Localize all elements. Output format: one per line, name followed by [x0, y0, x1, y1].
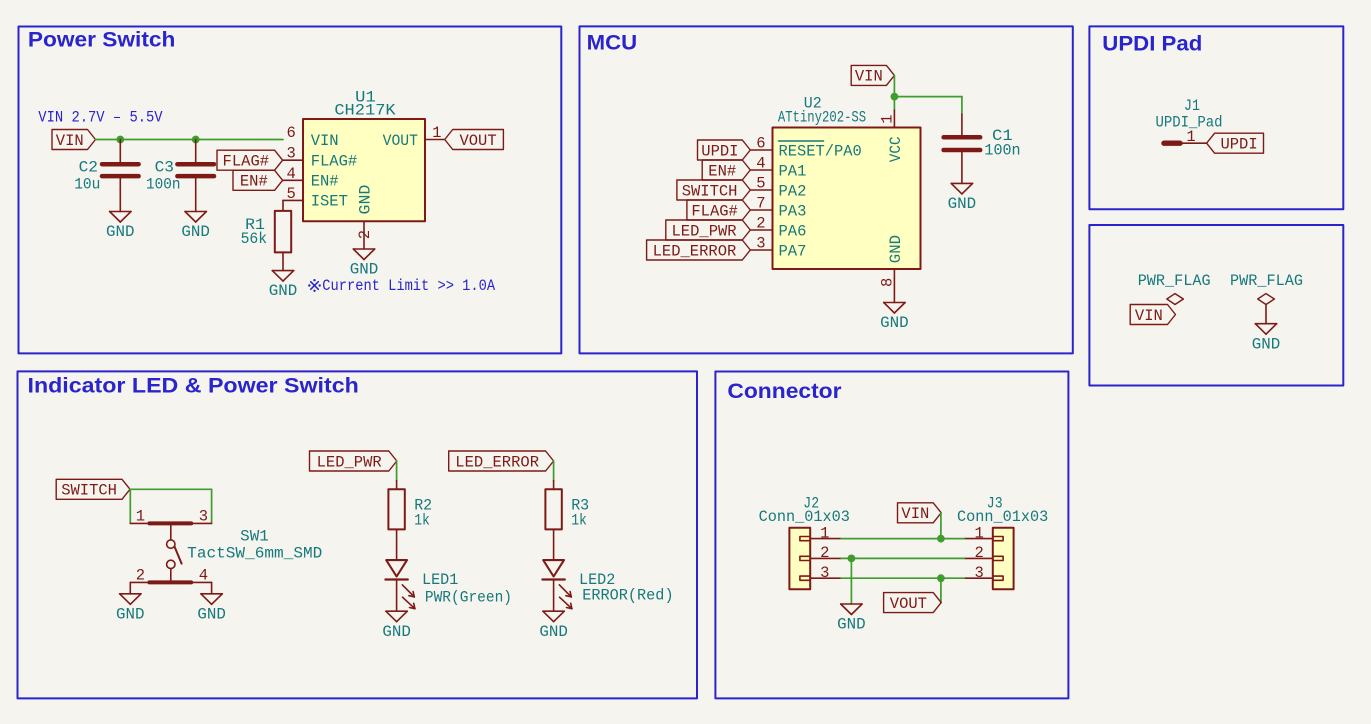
pin J3 2 — [964, 557, 993, 559]
svg-text:GND: GND — [837, 616, 866, 634]
svg-text:GND: GND — [539, 623, 568, 641]
wire vout down conn — [940, 578, 942, 602]
ground sw4 — [197, 594, 226, 624]
global label LED_PWR mcu — [666, 220, 751, 240]
junction row1 — [937, 535, 945, 543]
svg-text:PWR(Green): PWR(Green) — [425, 589, 512, 607]
connector J2 contact 1 — [800, 537, 810, 541]
svg-text:100n: 100n — [984, 141, 1020, 159]
global label EN# — [233, 170, 283, 190]
junction at C3 — [192, 136, 200, 144]
wire pin UPDI — [750, 149, 772, 151]
svg-text:SWITCH: SWITCH — [682, 182, 738, 200]
global label VOUT — [445, 130, 504, 150]
svg-text:8: 8 — [878, 278, 896, 287]
svg-text:PA3: PA3 — [779, 202, 807, 220]
sheet box MCU — [580, 26, 1073, 353]
note asterisk — [308, 279, 321, 292]
svg-text:1: 1 — [820, 524, 829, 542]
wire to C1 — [894, 96, 962, 98]
svg-text:UPDI: UPDI — [701, 142, 738, 160]
resistor R2 — [388, 489, 404, 529]
svg-text:GND: GND — [880, 314, 909, 332]
svg-text:GND: GND — [106, 223, 135, 241]
connector J3 contact 2 — [993, 556, 1003, 560]
svg-text:TactSW_6mm_SMD: TactSW_6mm_SMD — [187, 545, 322, 563]
svg-text:GND: GND — [1252, 335, 1281, 353]
svg-text:2: 2 — [136, 567, 145, 585]
svg-text:VIN: VIN — [56, 132, 84, 150]
junction row3 — [937, 574, 945, 582]
svg-text:CH217K: CH217K — [334, 102, 396, 120]
pin VCC stub — [893, 110, 895, 128]
resistor R3 — [545, 489, 561, 529]
svg-text:1: 1 — [136, 508, 145, 526]
svg-text:C2: C2 — [79, 159, 98, 177]
global label VIN — [52, 130, 96, 150]
global label LED_PWR led — [310, 451, 397, 471]
svg-text:1: 1 — [879, 114, 897, 123]
svg-text:LED_ERROR: LED_ERROR — [455, 453, 539, 471]
wire R1 to GND — [282, 252, 284, 270]
connector J2 contact 2 — [800, 556, 810, 560]
overline RESET — [779, 140, 824, 142]
wire to R2 — [396, 481, 398, 490]
wire flag gnd — [1265, 305, 1267, 324]
svg-text:GND: GND — [350, 261, 379, 279]
svg-text:1k: 1k — [571, 512, 587, 530]
wire pin LED_PWR — [750, 229, 772, 231]
svg-text:Conn_01x03: Conn_01x03 — [759, 508, 850, 526]
ground below R1 — [269, 271, 298, 301]
wire sw pin2 gnd — [129, 582, 131, 593]
svg-text:VIN: VIN — [1135, 307, 1163, 325]
junction VCC — [891, 93, 899, 101]
resistor R1 — [275, 211, 291, 253]
svg-text:Indicator LED & Power Switch: Indicator LED & Power Switch — [28, 375, 359, 398]
svg-text:VOUT: VOUT — [890, 595, 927, 613]
svg-text:LED_PWR: LED_PWR — [672, 222, 737, 240]
connector J3 contact 3 — [993, 576, 1003, 580]
junction row2 — [848, 555, 856, 563]
ground below C2 — [106, 212, 135, 242]
svg-text:FLAG#: FLAG# — [223, 153, 270, 171]
svg-text:GND: GND — [197, 605, 226, 623]
wire lederr down — [553, 461, 555, 481]
svg-text:Conn_01x03: Conn_01x03 — [957, 508, 1048, 526]
capacitor C3 — [177, 140, 214, 212]
sheet box Power Switch — [19, 27, 562, 354]
wire pin LED_ERROR — [750, 249, 772, 251]
sheet box flags — [1089, 225, 1343, 386]
connector J3 body — [993, 528, 1014, 590]
svg-text:EN#: EN# — [311, 173, 339, 191]
capacitor C2 — [102, 140, 139, 212]
svg-text:3: 3 — [286, 145, 295, 163]
flag F2 diamond — [1258, 294, 1275, 305]
pin J3 1 — [964, 538, 993, 540]
svg-text:GND: GND — [887, 235, 905, 263]
svg-text:VOUT: VOUT — [459, 132, 496, 150]
svg-text:RESET/PA0: RESET/PA0 — [779, 142, 862, 160]
pin J2 2 — [810, 557, 841, 559]
svg-text:100n: 100n — [146, 176, 181, 194]
svg-text:EN#: EN# — [708, 162, 736, 180]
wire ledpwr down — [396, 461, 398, 481]
global label VOUT conn — [884, 593, 942, 613]
svg-text:GND: GND — [181, 223, 210, 241]
wire R3 to LED2 — [553, 529, 555, 559]
wire row3 — [841, 577, 964, 579]
sheet box Indicator — [18, 371, 698, 698]
connector J2 contact 3 — [800, 576, 810, 580]
sheet box UPDI Pad — [1089, 26, 1343, 209]
svg-text:1k: 1k — [414, 512, 430, 530]
svg-text:GND: GND — [948, 195, 977, 213]
ground below C3 — [181, 212, 210, 242]
svg-text:4: 4 — [756, 155, 765, 173]
wire R2 to LED1 — [396, 529, 398, 559]
svg-text:SWITCH: SWITCH — [61, 482, 117, 500]
wire pin FLAG# — [750, 209, 772, 211]
svg-text:3: 3 — [199, 508, 208, 526]
wire vin down conn — [940, 513, 942, 539]
svg-text:3: 3 — [820, 564, 829, 582]
svg-text:6: 6 — [286, 124, 295, 142]
ground conn — [837, 604, 866, 634]
capacitor C1 — [944, 114, 981, 183]
svg-text:VIN: VIN — [311, 132, 339, 150]
svg-text:Current Limit >> 1.0A: Current Limit >> 1.0A — [322, 277, 495, 295]
ground below U1 — [350, 249, 379, 279]
svg-text:GND: GND — [116, 605, 145, 623]
wire EN# pin — [283, 179, 303, 181]
svg-text:2: 2 — [974, 544, 983, 562]
svg-text:GND: GND — [269, 282, 298, 300]
svg-text:PA1: PA1 — [779, 162, 807, 180]
global label SWITCH mcu — [677, 180, 750, 200]
wire LED2 gnd — [553, 579, 555, 611]
svg-text:PWR_FLAG: PWR_FLAG — [1138, 272, 1211, 290]
wire FLAG# pin — [283, 159, 303, 161]
global label EN# mcu — [702, 160, 750, 180]
op-amp U1 body — [303, 119, 425, 221]
flag F1 diamond — [1167, 294, 1184, 305]
wire J1 pin — [1180, 142, 1207, 144]
svg-text:2: 2 — [820, 544, 829, 562]
svg-text:FLAG#: FLAG# — [691, 202, 738, 220]
svg-text:LED_PWR: LED_PWR — [317, 453, 382, 471]
switch SW1 — [130, 523, 211, 582]
svg-text:SW1: SW1 — [240, 528, 269, 546]
sheet box Connector — [715, 372, 1068, 699]
global label FLAG# — [217, 150, 283, 170]
ground led1 — [382, 611, 411, 641]
svg-text:LED1: LED1 — [422, 571, 458, 589]
global label LED_ERROR led — [449, 451, 554, 471]
svg-text:ATtiny202-SS: ATtiny202-SS — [778, 108, 866, 126]
wire gnd conn — [850, 558, 852, 604]
ground led2 — [539, 611, 568, 641]
global label LED_ERROR mcu — [647, 240, 751, 260]
global label UPDI pad — [1207, 133, 1264, 153]
svg-text:5: 5 — [286, 185, 295, 203]
svg-text:PA7: PA7 — [779, 242, 807, 260]
LED LED2 — [542, 560, 572, 609]
svg-text:3: 3 — [756, 235, 765, 253]
wire VIN to U1 — [96, 139, 284, 141]
pin 5 wire to R1 — [283, 199, 303, 201]
svg-text:C3: C3 — [155, 159, 174, 177]
global label VIN mcu — [851, 65, 894, 85]
svg-text:ISET: ISET — [311, 193, 348, 211]
connector J1 pad — [1164, 140, 1180, 145]
wire switch top — [130, 488, 212, 490]
svg-text:VIN: VIN — [855, 68, 883, 86]
svg-text:PA6: PA6 — [779, 222, 807, 240]
svg-text:3: 3 — [974, 564, 983, 582]
LED LED1 — [385, 560, 415, 609]
global label UPDI mcu — [698, 140, 751, 160]
junction at C2 — [116, 136, 124, 144]
pin J2 1 — [810, 538, 841, 540]
global label VIN flag — [1130, 305, 1175, 325]
svg-text:10u: 10u — [74, 176, 100, 194]
svg-text:VCC: VCC — [887, 136, 905, 162]
wire pin EN# — [750, 169, 772, 171]
svg-text:MCU: MCU — [587, 32, 638, 55]
svg-text:56k: 56k — [241, 230, 268, 248]
svg-text:PA2: PA2 — [779, 182, 807, 200]
wire LED1 gnd — [396, 579, 398, 611]
connector J3 contact 1 — [993, 537, 1003, 541]
svg-text:2: 2 — [756, 215, 765, 233]
ground below U2 — [880, 303, 909, 333]
wire VIN down — [893, 75, 895, 110]
ground below C1 — [948, 183, 977, 213]
svg-text:LED_ERROR: LED_ERROR — [653, 242, 737, 260]
wire VOUT pin — [425, 139, 445, 141]
svg-text:1: 1 — [974, 524, 983, 542]
svg-text:VIN 2.7V – 5.5V: VIN 2.7V – 5.5V — [38, 108, 163, 126]
svg-text:GND: GND — [382, 623, 411, 641]
svg-text:1: 1 — [1186, 128, 1195, 146]
svg-text:6: 6 — [756, 135, 765, 153]
svg-text:VIN: VIN — [901, 505, 929, 523]
ground sw2 — [116, 594, 145, 624]
svg-text:UPDI: UPDI — [1220, 136, 1257, 154]
ground flag — [1252, 324, 1281, 354]
svg-text:FLAG#: FLAG# — [311, 153, 358, 171]
wire to R3 — [553, 481, 555, 490]
wire pin SWITCH — [750, 189, 772, 191]
svg-text:7: 7 — [756, 195, 765, 213]
pin J2 3 — [810, 577, 841, 579]
global label VIN conn — [898, 503, 942, 523]
svg-text:Connector: Connector — [727, 380, 841, 403]
svg-text:4: 4 — [199, 567, 208, 585]
svg-text:VOUT: VOUT — [383, 132, 418, 150]
wire U2 pin8 — [893, 269, 895, 303]
svg-text:GND: GND — [356, 185, 374, 215]
pin J3 3 — [964, 577, 993, 579]
connector J2 body — [789, 528, 810, 590]
svg-text:J1: J1 — [1184, 97, 1200, 115]
svg-text:4: 4 — [286, 165, 295, 183]
svg-text:UPDI Pad: UPDI Pad — [1102, 33, 1202, 56]
wire sw pin4 gnd — [211, 582, 213, 593]
svg-text:5: 5 — [756, 175, 765, 193]
global label SWITCH sw — [56, 479, 130, 499]
wire U1 pin2 gnd — [363, 221, 365, 249]
wire row1 — [841, 538, 964, 540]
svg-text:Power Switch: Power Switch — [28, 29, 176, 52]
wire row2 — [841, 557, 964, 559]
svg-text:ERROR(Red): ERROR(Red) — [582, 587, 673, 605]
global label FLAG# mcu — [687, 200, 750, 220]
svg-text:PWR_FLAG: PWR_FLAG — [1230, 272, 1303, 290]
svg-text:EN#: EN# — [240, 173, 268, 191]
mcu U2 body — [773, 128, 921, 270]
